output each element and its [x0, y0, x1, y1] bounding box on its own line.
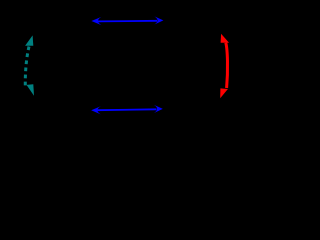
wire bottom blue double arrow	[91, 105, 163, 115]
wire left teal dashed curved double arrow	[25, 35, 34, 95]
wire top blue double arrow	[91, 16, 163, 25]
wire right red curved double arrow	[220, 34, 229, 99]
